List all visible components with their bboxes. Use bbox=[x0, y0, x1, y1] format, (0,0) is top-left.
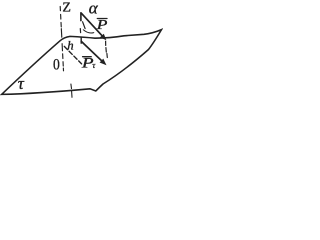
svg-text:Z: Z bbox=[62, 1, 71, 16]
svg-text:h: h bbox=[67, 39, 73, 53]
svg-text:α: α bbox=[89, 0, 99, 18]
svg-text:0: 0 bbox=[53, 57, 60, 74]
svg-text:P: P bbox=[96, 18, 108, 33]
arrowhead P tau bbox=[100, 59, 107, 66]
Z axis dashed bbox=[60, 7, 63, 71]
vector P shaft bbox=[81, 13, 102, 36]
arrowhead P bbox=[100, 34, 107, 41]
A-drop dashes bbox=[80, 13, 82, 21]
vector P tau shaft bbox=[81, 41, 101, 60]
svg-text:τ: τ bbox=[18, 74, 25, 93]
svg-text:τ: τ bbox=[92, 61, 96, 70]
P overbar bbox=[97, 18, 107, 20]
B-drop dashes bbox=[105, 41, 107, 45]
plane tau outline bbox=[2, 30, 162, 95]
45deg dashes bbox=[64, 46, 81, 64]
angle arc dash bbox=[83, 22, 86, 29]
P tau overbar bbox=[83, 56, 92, 58]
